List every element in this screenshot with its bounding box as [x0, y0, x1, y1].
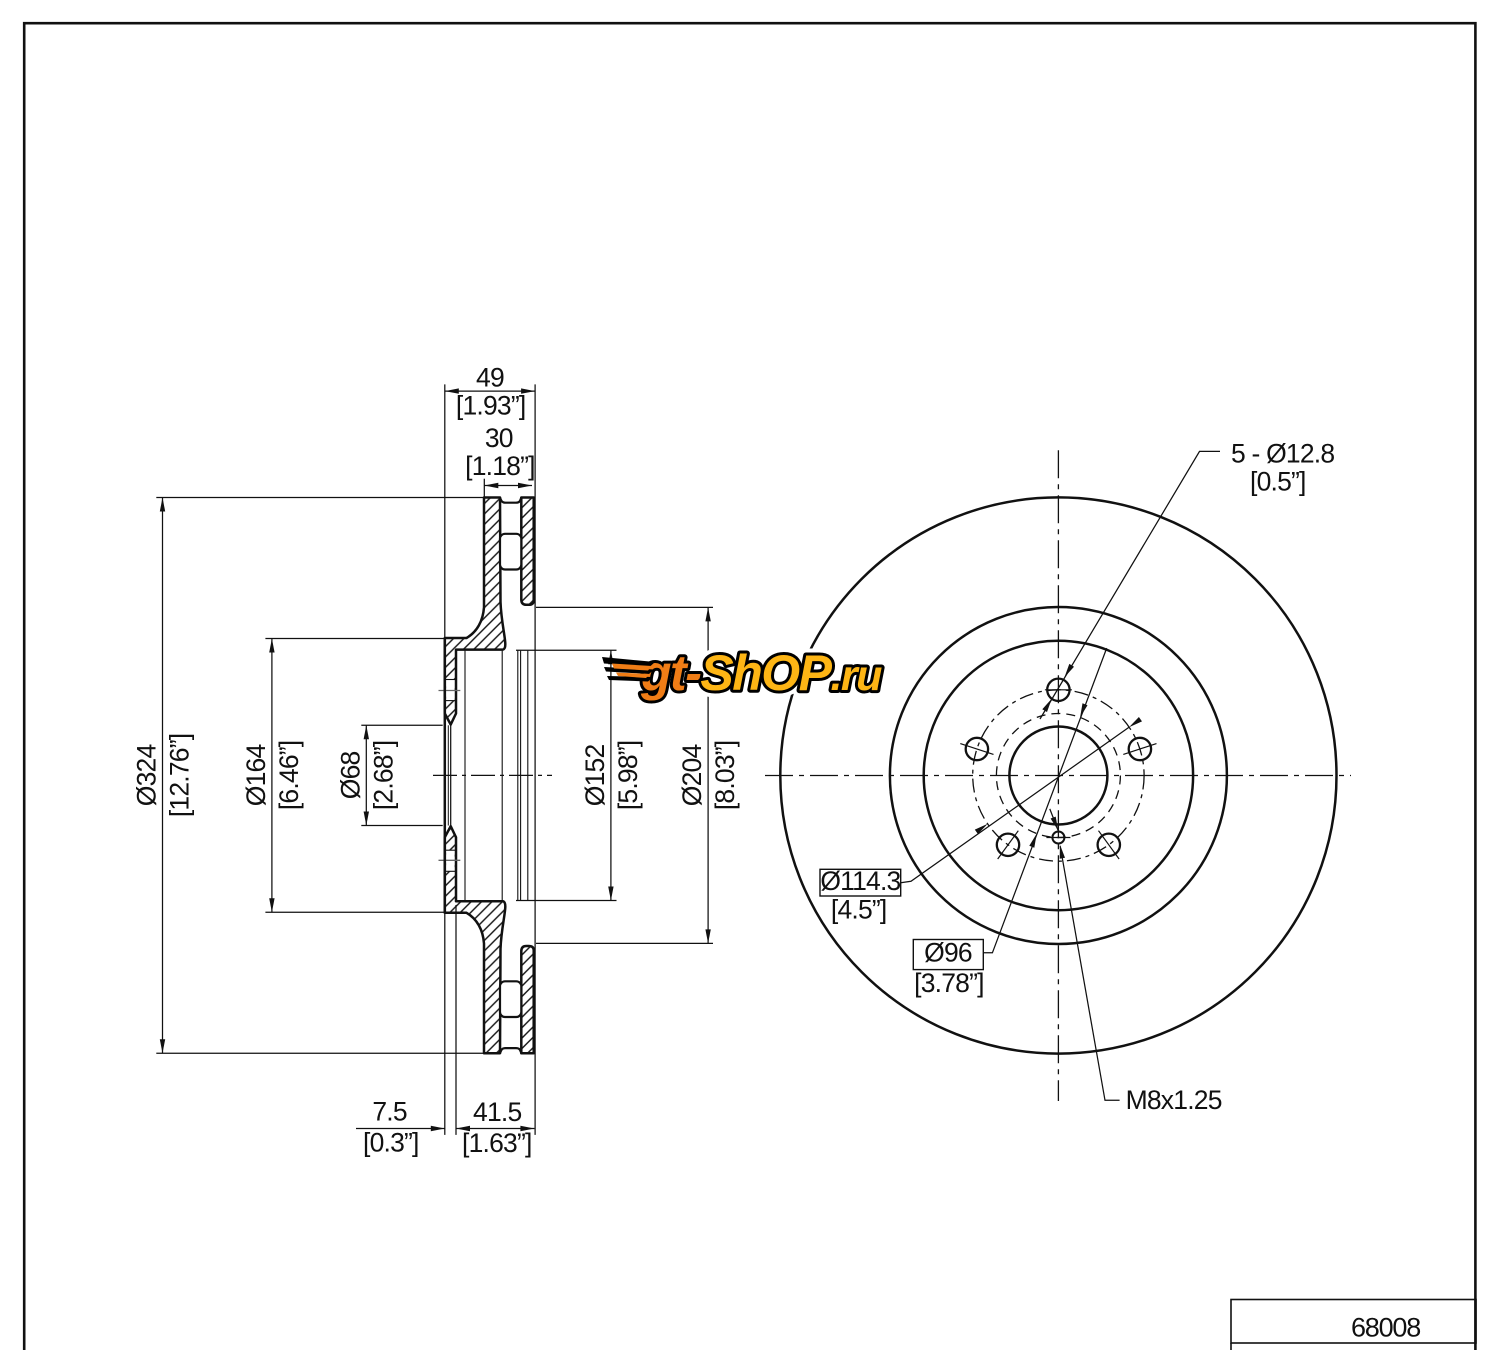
svg-text:Ø114.3: Ø114.3 — [820, 866, 900, 896]
leader M8x1.25 — [1060, 846, 1119, 1100]
svg-text:[0.5”]: [0.5”] — [1250, 467, 1306, 497]
leader 5-Ø12.8 — [1040, 451, 1220, 719]
svg-text:[12.76”]: [12.76”] — [165, 734, 195, 817]
dimension Ø68 — [361, 724, 442, 726]
svg-text:[1.18”]: [1.18”] — [465, 451, 535, 481]
dimension 49 — [444, 384, 446, 638]
svg-text:Ø96: Ø96 — [924, 938, 972, 968]
svg-text:7.5: 7.5 — [372, 1096, 407, 1126]
dimension Ø204 — [536, 606, 713, 608]
svg-text:[8.03”]: [8.03”] — [710, 741, 740, 811]
dimension 41.5 — [455, 905, 457, 1135]
bolt circle Ø114.3 (dash-dot) — [973, 690, 1144, 861]
dimension Ø152 — [516, 649, 617, 651]
svg-text:[1.93”]: [1.93”] — [456, 391, 526, 421]
main centerlines — [765, 775, 1351, 777]
bolt holes 5x Ø12.8 — [1047, 679, 1069, 701]
svg-text:5 - Ø12.8: 5 - Ø12.8 — [1231, 439, 1334, 469]
svg-text:68008: 68008 — [1351, 1313, 1420, 1343]
dimension 30 — [483, 479, 485, 498]
svg-text:Ø152: Ø152 — [580, 745, 610, 807]
svg-text:41.5: 41.5 — [473, 1097, 521, 1127]
callout Ø114.3 boxed — [820, 869, 901, 896]
svg-text:Ø204: Ø204 — [677, 745, 707, 807]
vent vane (top) — [500, 534, 521, 570]
section view: rotor cross-section — [433, 498, 552, 1054]
vent vane (bottom) — [500, 981, 521, 1017]
front view circles — [780, 497, 1336, 1053]
svg-text:[0.3”]: [0.3”] — [363, 1128, 419, 1158]
circle Ø96 (dashed) — [996, 714, 1120, 838]
dimension 7.5 — [356, 1128, 445, 1130]
cavity projection lines — [464, 651, 466, 901]
svg-text:[2.68”]: [2.68”] — [368, 741, 398, 811]
svg-text:[6.46”]: [6.46”] — [274, 741, 304, 811]
svg-text:[3.78”]: [3.78”] — [914, 968, 984, 998]
dimension Ø324 — [156, 497, 485, 499]
svg-text:Ø68: Ø68 — [335, 752, 365, 800]
title block — [1231, 1300, 1476, 1344]
svg-text:[4.5”]: [4.5”] — [831, 895, 887, 925]
bore circle Ø68 — [1009, 727, 1107, 825]
svg-text:49: 49 — [476, 363, 504, 393]
svg-text:[1.63”]: [1.63”] — [462, 1128, 532, 1158]
svg-text:Ø324: Ø324 — [132, 745, 162, 807]
M8 service hole — [1052, 832, 1064, 844]
svg-text:30: 30 — [485, 423, 513, 453]
section centerline — [433, 774, 552, 776]
svg-text:[5.98”]: [5.98”] — [613, 741, 643, 811]
svg-text:Ø164: Ø164 — [241, 745, 271, 807]
bore Ø68 edges — [444, 638, 447, 913]
svg-text:gt-ShOP.ru: gt-ShOP.ru — [640, 645, 882, 701]
callout Ø96 boxed — [913, 940, 983, 970]
svg-text:M8x1.25: M8x1.25 — [1126, 1085, 1222, 1115]
dimension Ø164 — [265, 638, 446, 640]
